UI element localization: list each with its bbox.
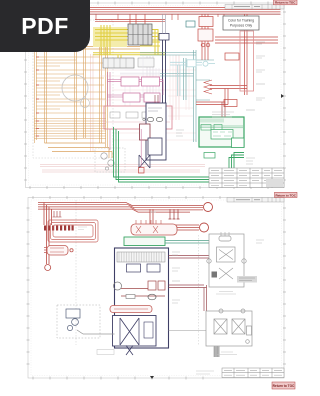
dimmer switch block xyxy=(138,58,154,67)
horn H1 xyxy=(204,203,213,212)
flasher relay (red pill) xyxy=(131,220,177,235)
teal harness wires xyxy=(140,50,214,142)
resistor R1 xyxy=(126,295,135,299)
horn H2 xyxy=(200,223,209,232)
page 2 frame tick marks xyxy=(27,196,287,380)
sheet header strip page2 xyxy=(227,198,284,203)
horn H2 feed xyxy=(150,209,199,230)
title block page2 xyxy=(222,368,284,378)
heater blower box (gray) xyxy=(207,232,246,287)
leads above connector xyxy=(163,14,166,34)
svg-text:Return to TOC: Return to TOC xyxy=(273,384,295,388)
alternator wires (red) xyxy=(196,14,278,105)
lighting switch wires (yellow) xyxy=(93,27,127,47)
wiper motor box (gray, bottom right) xyxy=(206,309,252,346)
heater control cluster (magenta wires) xyxy=(108,72,164,106)
caption under blower box xyxy=(216,292,236,295)
page 1 drawing frame xyxy=(26,3,285,188)
training note box xyxy=(223,16,259,30)
frame midpoint marker xyxy=(281,94,284,98)
orange harness rungs xyxy=(34,57,106,139)
wiper control assembly (navy box) xyxy=(115,248,169,348)
sheet header strip xyxy=(225,5,284,10)
washer pump dashed box xyxy=(57,305,100,338)
title block page2 text smudges xyxy=(224,370,282,375)
battery feed bus (red) page2 xyxy=(38,203,168,213)
control head box xyxy=(104,106,172,129)
note text column mid-right xyxy=(212,112,234,117)
box bottom label xyxy=(97,350,114,355)
magenta drop to flasher xyxy=(110,129,141,168)
audio unit (green box) xyxy=(199,117,244,147)
relay sub-blocks xyxy=(127,264,141,272)
left small label page2 xyxy=(196,371,214,374)
relay block xyxy=(103,58,134,68)
firewall dashed boundary xyxy=(75,200,77,345)
turn signal unit (navy box) xyxy=(143,103,166,160)
bus drop wires left xyxy=(44,203,52,265)
column connector C1 xyxy=(159,34,169,41)
switch S4 xyxy=(144,93,160,102)
sender body xyxy=(187,60,196,67)
green jumper wires xyxy=(165,241,228,251)
wire id labels right margin page2 xyxy=(150,212,264,303)
antenna feed (maroon) xyxy=(222,102,225,117)
harness bundle below xyxy=(214,346,220,357)
flasher indicator (red) xyxy=(139,168,145,174)
svg-text:Return to TOC: Return to TOC xyxy=(275,193,296,197)
svg-text:Color for Training: Color for Training xyxy=(228,19,254,23)
fuse block xyxy=(128,24,152,45)
page 2 drawing frame xyxy=(28,198,284,379)
cigar lighter xyxy=(44,246,73,256)
ground wire loop (green) xyxy=(114,127,245,182)
diode pack arrows xyxy=(204,80,212,94)
ground terminal circle xyxy=(45,265,51,271)
connector pin marks left xyxy=(36,57,39,136)
svg-text:Purposes Only: Purposes Only xyxy=(230,23,253,27)
inline connector on green run xyxy=(204,153,215,159)
red bus drop wires above fuse block xyxy=(95,14,165,24)
orange harness feed to switches xyxy=(34,47,140,159)
link wire navy box to wiper box xyxy=(169,330,207,332)
return-to-toc badge middle xyxy=(275,192,298,197)
switch S1 xyxy=(121,77,139,86)
ignition switch (dashed box) xyxy=(95,148,125,172)
motor brush oval xyxy=(148,294,156,300)
park switch circle xyxy=(114,282,122,290)
label text smudge xyxy=(239,278,255,281)
engine harness boundary (tall pink box) xyxy=(240,31,254,91)
approval stamp area xyxy=(266,179,283,187)
motor armature X xyxy=(126,346,133,356)
wiper motor sub-box xyxy=(113,316,157,347)
wire bus (main red feed) xyxy=(27,8,281,21)
maroon feed pair xyxy=(155,95,158,103)
terminal strip hatch xyxy=(117,252,165,262)
instrument gauge dial xyxy=(62,75,88,101)
antenna unit xyxy=(224,100,237,107)
washer hose wire xyxy=(83,333,115,335)
title block page1 xyxy=(209,168,284,188)
return-to-toc badge bottom xyxy=(272,382,295,389)
svg-text:Return to TOC: Return to TOC xyxy=(275,1,296,5)
wiper switch sub-box xyxy=(148,138,162,155)
switch S2 xyxy=(142,77,160,86)
fuse box loop wiring (nested red) xyxy=(48,220,98,242)
page 1 frame tick marks xyxy=(24,2,286,190)
branch pins below bus xyxy=(169,209,180,219)
main column harness (navy) xyxy=(163,40,166,124)
hazard switch (maroon box) xyxy=(140,124,151,140)
starter feed connectors (red) xyxy=(198,14,213,60)
orange harness ladder verticals xyxy=(35,22,108,147)
speaker connector (green) xyxy=(232,138,245,148)
fuse row xyxy=(44,226,74,231)
branch pins left page2 xyxy=(53,211,62,217)
frame midpoint marker page2 xyxy=(150,376,154,379)
faint background harness wires page1 xyxy=(40,54,205,172)
washer switch (red pill) xyxy=(110,306,152,313)
horn H1 feed xyxy=(168,206,203,213)
fuse labels xyxy=(78,227,87,230)
switch S3 xyxy=(123,93,140,102)
seatbelt relay unit (green box) xyxy=(124,237,165,246)
coil block (dark teal) xyxy=(186,21,195,27)
oil pressure switch (light blue) xyxy=(170,62,215,96)
sender unit circle xyxy=(203,61,208,66)
switch contact X xyxy=(139,155,150,168)
caption under wiper box xyxy=(217,352,237,355)
dashed instrument panel boundary xyxy=(33,20,113,158)
heater feed wires (maroon) xyxy=(169,256,210,312)
return-to-toc badge top xyxy=(274,0,298,5)
blower label plate xyxy=(237,276,257,283)
engine bay dashed boundary xyxy=(198,235,200,345)
pdf badge xyxy=(0,0,90,52)
faint harness hairlines center xyxy=(100,55,196,140)
title block text smudges xyxy=(211,171,282,186)
wire id labels right margin xyxy=(176,42,265,164)
wiper relay contacts (maroon) xyxy=(121,281,165,296)
